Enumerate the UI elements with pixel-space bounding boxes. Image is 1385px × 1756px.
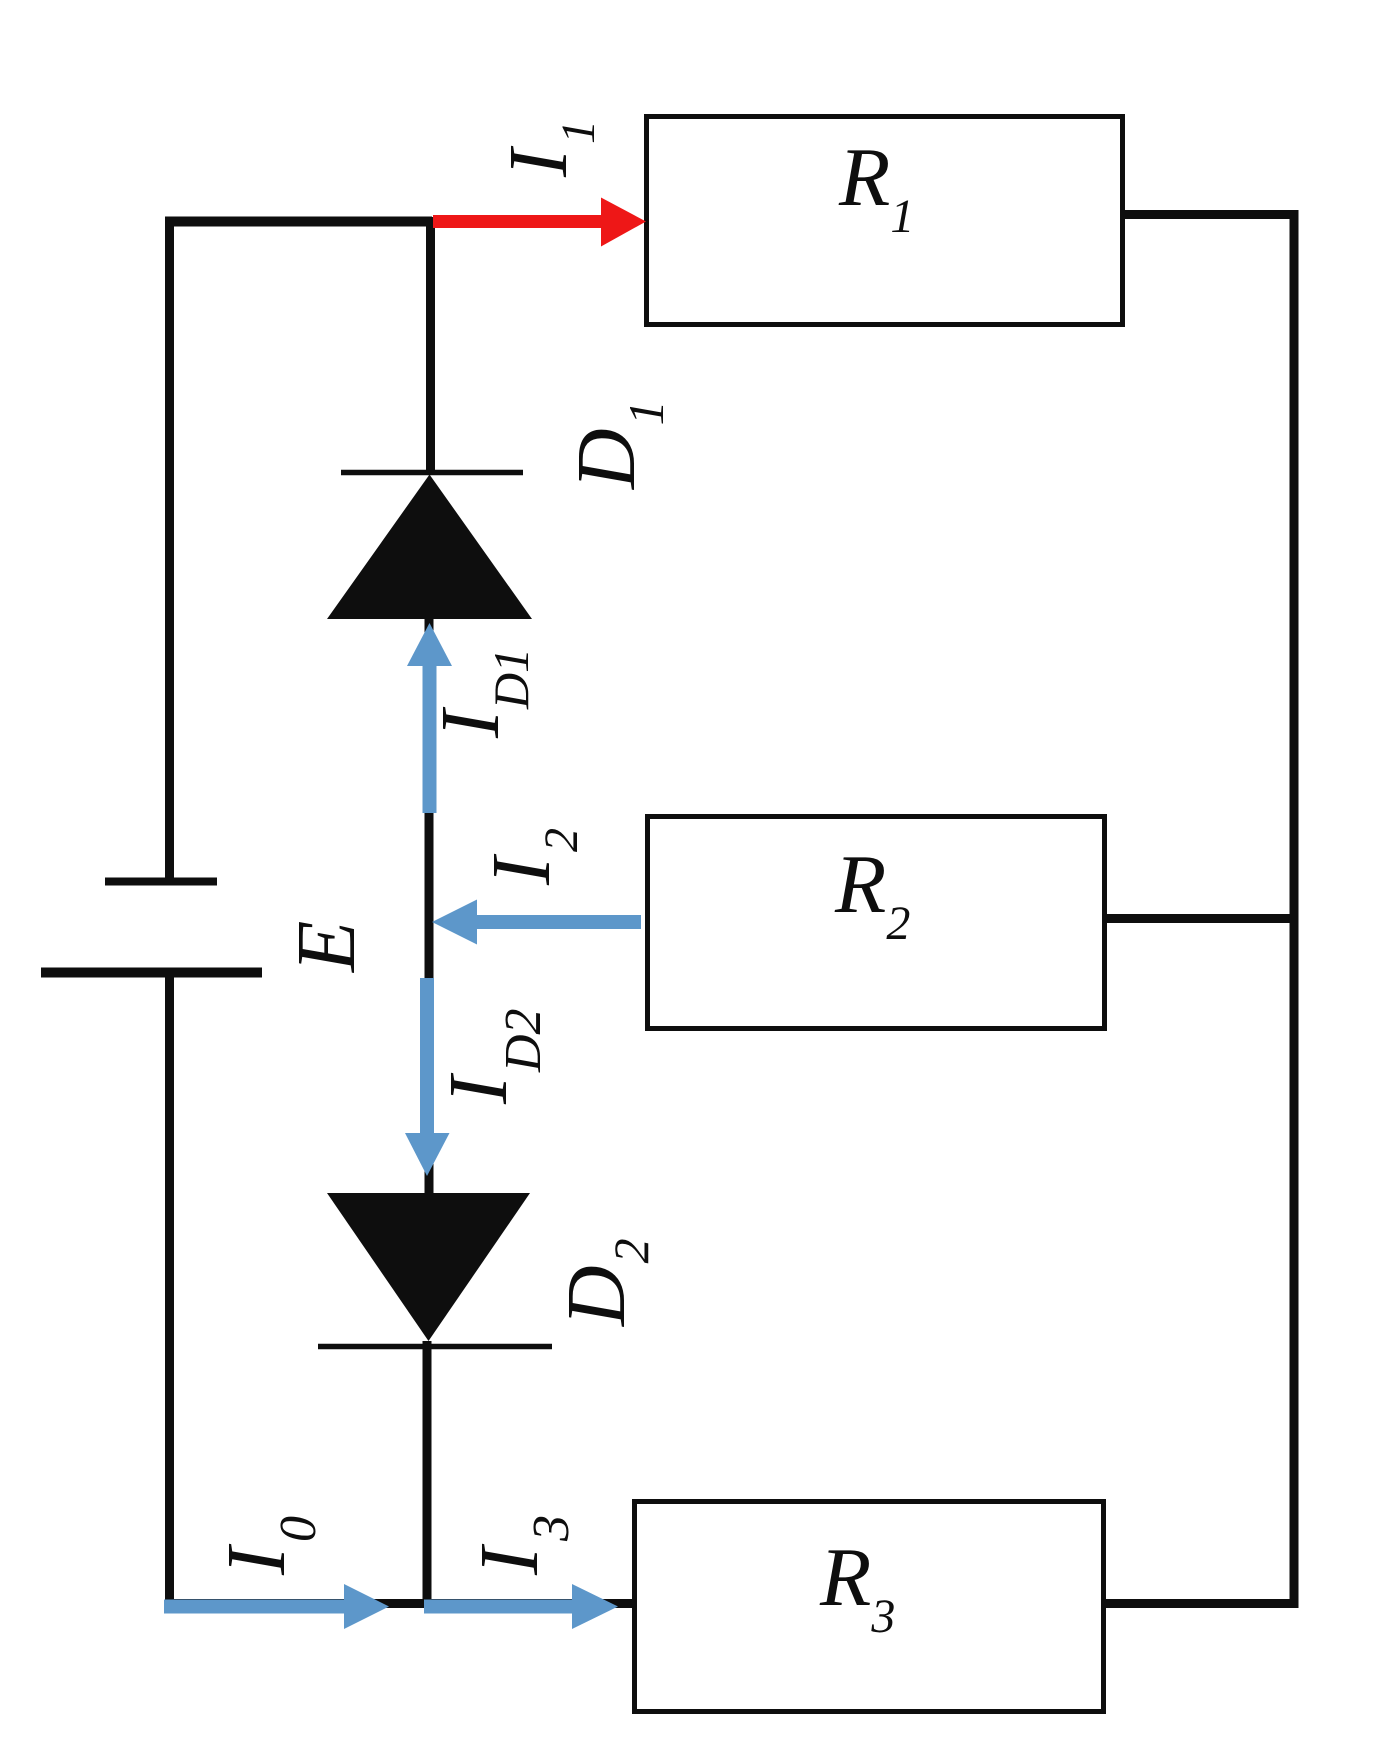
resistor R1 box <box>647 117 1123 325</box>
label I3 (current into R3) <box>463 1515 580 1576</box>
current arrow I3 (blue, into R3) <box>424 1584 618 1629</box>
resistor R2 box <box>648 817 1105 1029</box>
current arrow I1 (red, into R1) <box>433 198 646 247</box>
svg-text:D2: D2 <box>550 1238 659 1327</box>
label I_D1 (diode 1 current) <box>424 648 539 739</box>
label I_D2 (diode 2 current) <box>432 1008 552 1105</box>
current arrow I0 (blue, right along bottom) <box>164 1584 389 1629</box>
svg-text:I3: I3 <box>463 1515 580 1576</box>
label E (battery EMF) <box>280 921 373 973</box>
diode D2 triangle (anode, pointing down) <box>327 1193 530 1341</box>
current arrow I2 (blue, left from R2 to node E) <box>432 900 641 945</box>
wire: bottom horizontal (node B to R3) <box>165 1599 640 1608</box>
svg-text:I1: I1 <box>492 120 605 178</box>
label D2 (diode 2) <box>550 1238 659 1327</box>
diode D1 triangle (anode, pointing up) <box>327 475 532 620</box>
resistor R3 box <box>635 1502 1104 1712</box>
current arrow I_D1 (blue, up into D1) <box>407 623 452 813</box>
label I2 (current from R2) <box>475 828 588 886</box>
wire: right vertical bus <box>1290 210 1299 1604</box>
label I1 (current into R1) <box>492 120 605 178</box>
battery E bottom plate (long) <box>41 968 262 978</box>
wire: central vertical upper (node A to D1) <box>426 217 435 472</box>
svg-text:D1: D1 <box>560 400 674 490</box>
label I0 (battery current) <box>210 1516 327 1576</box>
wire: R2 right lead <box>1106 914 1294 923</box>
label D1 (diode 1) <box>560 400 674 490</box>
current arrow I_D2 (blue, down into D2) <box>405 978 450 1176</box>
wire: central vertical lower (D2 to bottom wire) <box>423 1341 432 1603</box>
diode D1 cathode bar <box>341 470 523 476</box>
wire: central vertical middle (D1 to D2, node E) <box>425 619 434 1196</box>
svg-text:ID2: ID2 <box>432 1008 552 1105</box>
diode D2 cathode bar <box>318 1344 552 1350</box>
wire: R1 right lead <box>1124 210 1298 219</box>
wire: left vertical upper (to battery) <box>165 217 174 882</box>
svg-text:E: E <box>280 921 373 973</box>
battery E top plate (short) <box>105 878 217 886</box>
svg-text:I0: I0 <box>210 1516 327 1576</box>
wire: top horizontal from left corner to node A <box>165 217 432 227</box>
wire: R3 right lead <box>1105 1599 1299 1608</box>
wire: left vertical lower (battery to bottom corner) <box>165 972 174 1603</box>
svg-text:I2: I2 <box>475 828 588 886</box>
